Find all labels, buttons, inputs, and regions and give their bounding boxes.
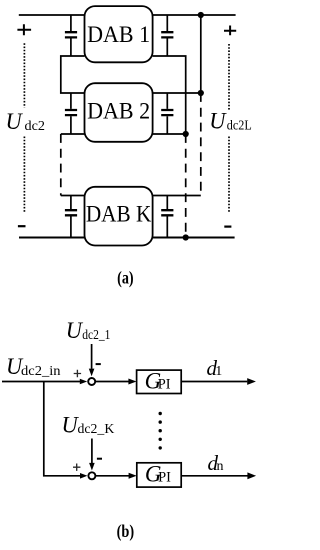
svg-text:1: 1 xyxy=(215,364,222,379)
svg-text:dc2_in: dc2_in xyxy=(21,364,61,379)
svg-text:PI: PI xyxy=(158,376,171,392)
svg-text:DAB 1: DAB 1 xyxy=(87,22,150,47)
svg-text:U: U xyxy=(6,109,24,134)
svg-text:dc2_K: dc2_K xyxy=(78,422,115,437)
svg-text:dc2: dc2 xyxy=(25,119,46,134)
svg-text:DAB K: DAB K xyxy=(86,202,152,227)
svg-text:U: U xyxy=(66,318,84,343)
svg-text:n: n xyxy=(217,459,224,474)
svg-text:(a): (a) xyxy=(117,268,134,289)
svg-text:dc2L: dc2L xyxy=(227,118,252,133)
svg-text:DAB 2: DAB 2 xyxy=(87,98,150,123)
svg-text:U: U xyxy=(209,108,227,133)
svg-text:(b): (b) xyxy=(117,521,135,542)
svg-text:U: U xyxy=(62,412,80,437)
svg-text:PI: PI xyxy=(158,470,171,486)
svg-text:dc2_1: dc2_1 xyxy=(82,328,110,343)
